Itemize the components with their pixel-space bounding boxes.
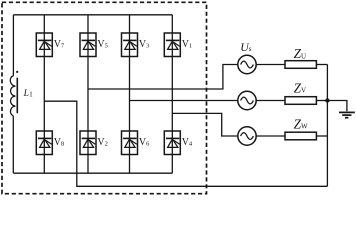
wire: column 4 vertical (V1/V4 leg)	[171, 15, 173, 173]
wire: ZW to right rail	[316, 135, 327, 137]
thyristor V8	[36, 131, 52, 155]
wire: left conductor lower	[12, 116, 14, 174]
wire: source U to ZU	[256, 64, 285, 66]
thyristor V3	[122, 33, 138, 57]
thyristor V7	[36, 33, 52, 57]
junction dot at neutral	[325, 98, 329, 102]
impedance ZW box	[285, 132, 316, 140]
thyristor V4	[164, 131, 180, 155]
inductor L1 core bar	[16, 78, 18, 114]
wire: column 4 tap to phase W source	[172, 113, 237, 136]
inductor L1 coil	[10, 76, 15, 116]
wire: ZV to right rail	[316, 100, 327, 102]
thyristor V5	[80, 33, 96, 57]
thyristor V1	[164, 33, 180, 57]
ground	[327, 101, 354, 118]
wire: right neutral rail	[326, 65, 328, 187]
thyristor V6	[122, 131, 138, 155]
wire: source W to ZW	[256, 135, 285, 137]
impedance ZV box	[285, 97, 316, 105]
AC source Us (phase U)	[238, 55, 256, 73]
wire: top DC bus	[13, 14, 172, 16]
wire: bottom DC bus	[13, 172, 172, 174]
dashed enclosure border	[2, 2, 207, 193]
wire: column 2 vertical (V5/V2 leg)	[87, 15, 89, 173]
AC source (phase W)	[238, 127, 256, 145]
wire: left conductor upper	[12, 15, 14, 76]
impedance ZU box	[285, 61, 316, 69]
wire: column 2 tap to phase U source	[88, 65, 238, 90]
wire: ZU to right rail	[316, 64, 327, 66]
wire: column 1 tap to neutral return	[44, 101, 327, 186]
wire: column 3 vertical (V3/V6 leg)	[129, 15, 131, 173]
wire: column 3 tap to phase V source	[130, 100, 238, 102]
thyristor V2	[80, 131, 96, 155]
wire: column 1 vertical (V7/V8 leg)	[43, 15, 45, 173]
AC source (phase V)	[238, 91, 256, 109]
wire: source V to ZV	[256, 100, 285, 102]
inductor polarity dot	[16, 71, 18, 73]
